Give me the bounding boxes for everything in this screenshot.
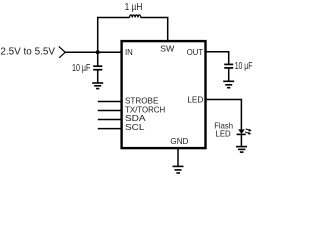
inductor value label 1 µH bbox=[125, 2, 143, 13]
wire inductor to SW pin bbox=[141, 18, 168, 41]
pin label OUT bbox=[187, 47, 203, 57]
flash LED label line 2 LED bbox=[216, 129, 231, 139]
pin label GND bbox=[170, 136, 188, 146]
wire VIN to IC IN pin bbox=[65, 51, 121, 53]
wire GND pin to ground bbox=[177, 148, 179, 166]
svg-text:SCL: SCL bbox=[125, 122, 145, 132]
svg-text:OUT: OUT bbox=[187, 47, 203, 57]
svg-text:2.5V to 5.5V: 2.5V to 5.5V bbox=[0, 47, 55, 58]
pin label SDA bbox=[125, 113, 146, 123]
wire VIN riser to inductor bbox=[98, 18, 130, 53]
svg-text:GND: GND bbox=[170, 136, 188, 146]
pin label STROBE bbox=[125, 95, 159, 105]
svg-text:LED: LED bbox=[187, 94, 203, 104]
capacitor C1 value label 10 µF bbox=[72, 63, 90, 74]
pin stub TX/TORCH bbox=[98, 110, 121, 112]
ground symbol GND pin bbox=[173, 166, 184, 173]
svg-text:10 µF: 10 µF bbox=[72, 63, 90, 74]
pin label LED bbox=[187, 94, 203, 104]
wire LED cathode to ground bbox=[240, 134, 242, 146]
svg-text:SW: SW bbox=[160, 43, 174, 53]
pin label SCL bbox=[125, 122, 145, 132]
capacitor C1 input bbox=[93, 66, 102, 70]
input terminal chevron bbox=[59, 46, 65, 57]
LED D1 flash LED symbol bbox=[237, 129, 246, 134]
pin stub STROBE bbox=[98, 101, 121, 103]
LED emission arrow 2 bbox=[245, 132, 251, 135]
svg-text:10 µF: 10 µF bbox=[235, 61, 253, 72]
capacitor C2 value label 10 µF bbox=[235, 61, 253, 72]
wire VIN down to input capacitor bbox=[97, 52, 99, 66]
ground symbol output bbox=[223, 81, 234, 87]
svg-text:LED: LED bbox=[216, 129, 231, 139]
wire C1 to ground bbox=[97, 70, 99, 83]
junction node VIN bbox=[96, 50, 100, 54]
ground symbol input bbox=[92, 83, 103, 89]
capacitor C2 output bbox=[224, 64, 233, 68]
ground symbol LED bbox=[236, 147, 247, 153]
op-amp U1 flash LED driver IC body bbox=[122, 41, 206, 148]
svg-text:IN: IN bbox=[125, 47, 133, 57]
wire LED pin to flash LED bbox=[206, 100, 241, 130]
pin stub SCL bbox=[98, 128, 121, 130]
pin label IN bbox=[125, 47, 133, 57]
pin stub SDA bbox=[98, 119, 121, 121]
svg-text:1 µH: 1 µH bbox=[125, 2, 143, 13]
pin label SW bbox=[160, 43, 174, 53]
flash LED label line 1 Flash bbox=[214, 121, 233, 131]
node VIN input label 2.5V to 5.5V bbox=[0, 47, 55, 58]
pin label TX/TORCH bbox=[125, 104, 165, 114]
wire C2 to ground bbox=[228, 68, 230, 81]
inductor L1 bbox=[130, 15, 141, 18]
LED emission arrow 1 bbox=[246, 129, 252, 132]
wire OUT pin to output capacitor bbox=[206, 52, 229, 65]
